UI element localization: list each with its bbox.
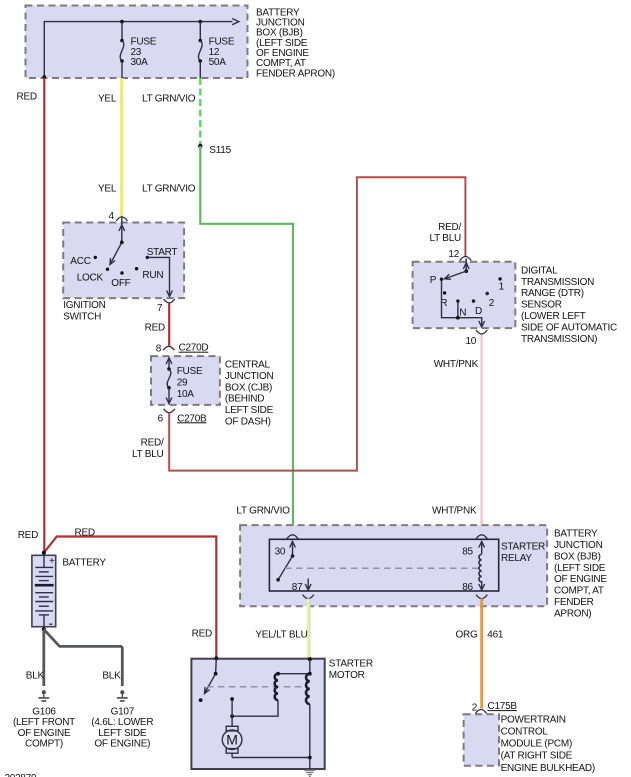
svg-text:MOTOR: MOTOR [329,670,365,681]
wire label RED [17,91,37,102]
wire label RED (left of battery) [18,530,38,541]
battery junction box BJB (top) [26,6,248,79]
svg-text:(AT RIGHT SIDE: (AT RIGHT SIDE [501,751,573,762]
svg-text:BOX (BJB): BOX (BJB) [554,551,601,562]
svg-text:RUN: RUN [142,270,163,281]
fuse 12 50A [198,22,202,78]
svg-text:TRANSMISSION): TRANSMISSION) [521,334,597,345]
wire label RED (battery to starter feed) [75,528,95,539]
wire label LT GRN/VIO [142,93,196,104]
svg-text:BATTERY: BATTERY [554,529,598,540]
connector arc at pin 10 [476,330,487,334]
svg-text:S115: S115 [209,145,231,156]
wire label YEL [98,93,117,104]
case ground under starter motor [304,770,315,776]
wire LT GRN/VIO solid (S115 to starter relay pin 30) [200,146,293,536]
relay switch lever [276,554,294,581]
wire START contact to pin 7 [147,257,172,296]
svg-text:START: START [147,247,178,258]
svg-text:APRON): APRON) [554,609,591,620]
circuit number 461 [487,629,504,640]
svg-text:COMPT, AT: COMPT, AT [554,586,604,597]
contact 1 [498,277,504,292]
svg-text:LOCK: LOCK [77,272,104,283]
starter motor name label [329,658,373,681]
svg-text:85: 85 [462,546,473,557]
ignition switch rotor arrow (pin 4 feed) [119,217,125,244]
svg-text:ACC: ACC [70,256,90,267]
solenoid linkage dashed [207,686,308,688]
svg-text:WHT/PNK: WHT/PNK [432,505,477,516]
stub wire N contact to output [457,301,459,318]
wire label YEL (second) [98,183,117,194]
starter relay name label [501,541,545,564]
junction node on bus at fuse 23 [120,20,124,24]
connector arc at pin 12 [460,257,471,261]
svg-text:OF ENGINE: OF ENGINE [18,728,71,739]
pin 6 label [158,414,164,425]
svg-text:STARTER: STARTER [501,541,545,552]
splice S115 [198,144,232,156]
contact RUN [135,267,163,281]
svg-text:202879: 202879 [5,773,38,777]
svg-text:YEL/LT BLU: YEL/LT BLU [255,629,307,640]
battery name label [62,557,106,568]
svg-text:LT GRN/VIO: LT GRN/VIO [142,183,196,194]
fuse 12 value label [209,37,235,68]
wire label RED (above starter motor) [192,628,212,639]
svg-text:LEFT SIDE: LEFT SIDE [225,405,274,416]
connector C270B [164,409,207,425]
wire label YEL/LT BLU [255,629,307,640]
wire RED/LT BLU (CJB pin 6 to DTR pin 12) [169,177,465,470]
svg-text:LT BLU: LT BLU [132,449,164,460]
svg-text:FENDER: FENDER [554,597,594,608]
svg-text:ENGINE BULKHEAD): ENGINE BULKHEAD) [501,763,595,774]
svg-text:2: 2 [489,298,495,309]
starter solenoid pull-in winding (left coil) [275,674,278,700]
svg-text:JUNCTION: JUNCTION [225,371,274,382]
svg-text:OFF: OFF [111,278,130,289]
svg-text:C175B: C175B [488,701,518,712]
contact R [440,291,447,309]
svg-text:SIDE OF AUTOMATIC: SIDE OF AUTOMATIC [521,322,617,333]
motor M1 starter [222,716,309,757]
svg-text:6: 6 [158,414,164,425]
contact START [146,247,178,259]
svg-text:RED: RED [145,322,165,333]
pin 2 label [472,702,478,713]
svg-text:RED: RED [192,628,212,639]
svg-text:+: + [49,556,55,567]
wire from entry to coils [276,659,312,675]
fuse 29 10A with pin arrows [166,358,172,404]
starter relay body [269,539,498,591]
svg-text:4: 4 [109,211,115,222]
powertrain control module PCM [464,714,499,766]
fuse 23 value label [131,37,157,68]
connector arc at pin 7 [164,299,175,303]
connector arc at relay pin 86 [476,595,487,599]
wire RED (ignition pin 7 to CJB pin 8) [168,304,170,346]
relay pin 30 arrow [275,541,296,557]
wire YEL/LT BLU (relay pin 87 to starter motor) [308,599,310,659]
wire P contact to pin 10 [442,279,485,327]
svg-text:461: 461 [487,629,504,640]
relay coil [479,554,482,582]
svg-text:12: 12 [448,249,459,260]
wire label BLK (right) [102,670,121,681]
wire coil to ground run [308,704,312,769]
pin 7 label [157,303,163,314]
svg-text:(BEHIND: (BEHIND [225,394,264,405]
svg-text:BOX (CJB): BOX (CJB) [225,382,272,393]
svg-text:OF DASH): OF DASH) [225,417,271,428]
DTR lever to P [445,271,467,279]
battery junction box BJB (starter relay) [240,525,547,606]
svg-text:DIGITAL: DIGITAL [521,265,558,276]
battery [32,555,56,626]
svg-text:8: 8 [156,343,162,354]
DTR location label [521,265,617,344]
svg-text:WHT/PNK: WHT/PNK [434,359,479,370]
node yel/lt blu entry [308,657,312,661]
svg-text:50A: 50A [209,57,227,68]
wire RED battery feed (BJB to battery) [43,78,45,553]
svg-text:STARTER: STARTER [329,658,373,669]
wire BLK (battery to G106) [42,629,45,686]
ignition switch [63,223,184,299]
wire label LT GRN/VIO (second) [142,183,196,194]
wire RED (battery to starter motor) [44,537,216,659]
connector arc at relay pin 87 [303,595,314,599]
svg-text:FUSE: FUSE [177,366,203,377]
svg-text:10: 10 [466,336,477,347]
svg-text:30A: 30A [131,57,149,68]
svg-text:YEL: YEL [98,93,117,104]
fuse 29 value label [177,366,203,400]
svg-text:M: M [226,732,238,748]
ground G107 label [91,706,153,749]
pin 10 label [466,336,477,347]
bus wire inside BJB [44,19,238,79]
wire label WHT/PNK (above relay) [432,505,477,516]
wire label LT GRN/VIO (above relay) [236,505,290,516]
svg-text:POWERTRAIN: POWERTRAIN [501,714,566,725]
node at BJB exit of red feed [42,75,46,79]
ignition switch name label [63,300,105,323]
junction node on bus at fuse 12 [198,20,202,24]
svg-text:P: P [430,275,437,286]
svg-text:LT GRN/VIO: LT GRN/VIO [236,505,290,516]
connector arc at relay pin 85 [476,535,487,539]
wire label WHT/PNK (below DTR) [434,359,479,370]
svg-text:ORG: ORG [456,629,479,640]
svg-text:TRANSMISSION: TRANSMISSION [521,277,594,288]
svg-text:MODULE (PCM): MODULE (PCM) [501,739,572,750]
svg-text:RED: RED [17,91,37,102]
DTR rotor arrow (pin 12 feed) [463,259,469,274]
contact P [430,275,443,286]
fuse 23 30A [120,22,124,78]
node at battery negative [42,627,46,631]
wire label ORG [456,629,479,640]
wire YEL (fuse 23 to ignition switch) [120,78,123,217]
contact ACC [70,256,97,267]
svg-text:OF ENGINE): OF ENGINE) [94,739,150,750]
svg-text:C270D: C270D [179,343,209,354]
svg-text:JUNCTION: JUNCTION [554,540,603,551]
pin 12 label [448,249,459,260]
svg-text:G107: G107 [111,706,135,717]
wire LT GRN/VIO dashed (fuse 12 to splice S115) [199,78,201,144]
svg-text:RED/: RED/ [141,437,164,448]
BJB location label [256,7,335,79]
ground G106 label [13,706,75,749]
ground G107 [117,690,128,701]
contact 2 [486,292,495,309]
connector arc at pin 4 [116,217,127,221]
svg-text:RANGE (DTR): RANGE (DTR) [521,288,584,299]
starter motor box [191,659,324,769]
digital transmission range DTR sensor [413,262,516,328]
ignition switch lever to LOCK [110,242,122,264]
svg-text:LEFT SIDE: LEFT SIDE [98,728,147,739]
svg-text:COMPT): COMPT) [25,739,63,750]
svg-text:SENSOR: SENSOR [521,300,562,311]
svg-text:1: 1 [499,281,505,292]
svg-text:IGNITION: IGNITION [63,300,105,311]
svg-text:(LEFT SIDE: (LEFT SIDE [554,563,606,574]
svg-text:CONTROL: CONTROL [501,727,549,738]
svg-text:87: 87 [292,582,303,593]
CJB location label [225,359,274,427]
svg-text:30: 30 [275,546,286,557]
pin 4 label [109,211,115,222]
connector C270D [163,343,208,354]
central junction box CJB [151,356,220,405]
svg-text:D: D [475,306,482,317]
wire WHT/PNK (DTR pin 10 to relay pin 85) [480,335,483,536]
svg-text:7: 7 [157,303,163,314]
junction node on DTR output [456,316,460,320]
wire BLK (battery to G107) [44,629,123,686]
starter solenoid hold-in winding (right coil) [306,674,310,704]
wire pull-in winding to motor node [230,697,278,718]
relay pin 87 arrow [292,579,311,593]
svg-text:YEL: YEL [98,183,117,194]
svg-text:86: 86 [462,582,473,593]
diagram number 202879 [5,773,38,777]
pin 8 label [156,343,162,354]
solenoid switch (battery feed) [199,658,218,702]
svg-text:RED: RED [18,530,38,541]
wire label BLK (left) [26,670,45,681]
connector C175B [475,701,517,713]
svg-text:(LOWER LEFT: (LOWER LEFT [521,311,586,322]
svg-text:RELAY: RELAY [501,553,532,564]
contact N [456,299,466,318]
svg-text:LT GRN/VIO: LT GRN/VIO [142,93,196,104]
svg-text:(4.6L: LOWER: (4.6L: LOWER [91,717,153,728]
svg-text:CENTRAL: CENTRAL [225,359,271,370]
svg-text:G106: G106 [32,706,56,717]
svg-text:(LEFT FRONT: (LEFT FRONT [13,717,75,728]
wire label RED [145,322,165,333]
relay pin 86 arrow [462,581,484,593]
node at battery positive [42,551,46,555]
svg-text:BATTERY: BATTERY [62,557,106,568]
BJB location label (bottom) [554,529,607,620]
svg-text:OF ENGINE: OF ENGINE [554,574,607,585]
contact LOCK [77,268,110,284]
contact OFF [111,271,130,289]
PCM location label [501,714,595,773]
svg-text:FENDER APRON): FENDER APRON) [256,68,335,79]
relay pin 85 arrow [462,541,484,557]
wire label RED/ LT BLU (below CJB) [132,437,164,460]
wire ORG 461 (relay pin 86 to PCM pin 2) [480,599,483,709]
contact D [472,299,482,316]
svg-text:RED/: RED/ [438,222,461,233]
svg-text:LT BLU: LT BLU [430,233,462,244]
svg-text:29: 29 [177,377,188,388]
svg-text:SWITCH: SWITCH [63,312,101,323]
relay actuation dashed link [285,567,481,569]
wire label RED/ LT BLU (above DTR) [430,222,462,244]
svg-text:BLK: BLK [102,670,121,681]
svg-text:BLK: BLK [26,670,45,681]
svg-text:C270B: C270B [177,413,207,424]
connector arc at relay pin 30 [287,535,298,539]
svg-text:10A: 10A [177,389,195,400]
ground G106 [38,690,49,701]
node red feed at motor box [214,656,218,660]
